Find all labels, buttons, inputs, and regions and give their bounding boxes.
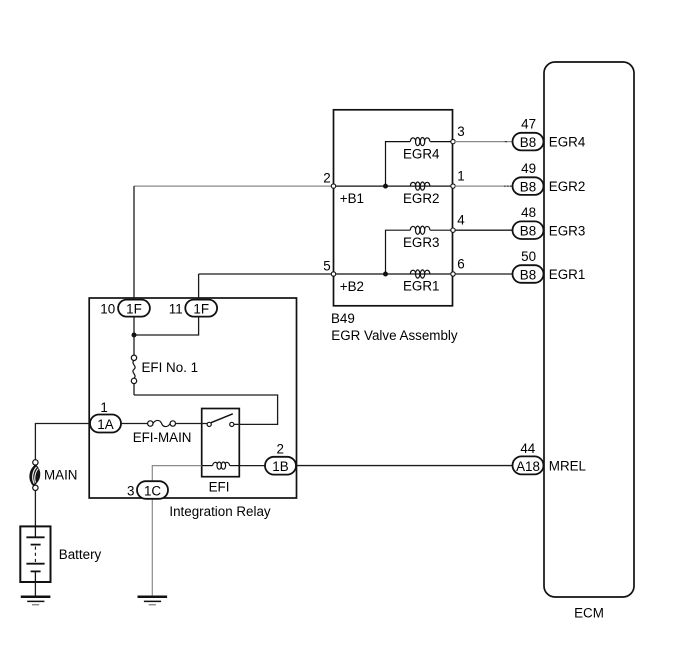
wire EGR1 to B8 — [455, 273, 514, 275]
wire stripe ticks on EGR4 wire — [505, 141, 507, 143]
wire +B2 feed horizontal — [199, 273, 334, 275]
wire branch to EGR3 — [386, 230, 411, 274]
ground (1C) — [138, 597, 168, 605]
connector A18 pin44 MREL — [513, 441, 587, 474]
svg-text:6: 6 — [457, 257, 464, 272]
svg-text:ECM: ECM — [574, 606, 604, 621]
wire 1F11 vertical — [134, 274, 199, 335]
wire battery to 1A — [35, 424, 90, 460]
wire EGR3 to B8 — [455, 229, 514, 231]
svg-text:B49: B49 — [331, 311, 355, 326]
svg-text:Integration Relay: Integration Relay — [169, 504, 271, 519]
svg-text:MREL: MREL — [549, 459, 586, 474]
EGR valve assembly box B49 — [331, 110, 458, 343]
wire 1B to A18 (MREL) — [294, 465, 514, 467]
wire +B1 feed horizontal (gray) — [134, 185, 334, 187]
node +B2 junction — [383, 272, 388, 277]
svg-text:EGR1: EGR1 — [549, 267, 585, 282]
connector 1F pin11 — [169, 300, 217, 317]
svg-text:EGR Valve Assembly: EGR Valve Assembly — [331, 328, 458, 343]
wire EGR3 row — [430, 229, 453, 231]
connector 1A pin1 — [90, 400, 121, 433]
wire battery to ground — [34, 582, 36, 596]
connector B8 pin47 EGR4 — [513, 117, 586, 151]
svg-text:EFI-MAIN: EFI-MAIN — [133, 430, 192, 445]
wire EGR4 row — [430, 141, 453, 143]
svg-text:EGR2: EGR2 — [403, 191, 439, 206]
fuse EFI-MAIN — [133, 420, 192, 444]
coil EGR4 — [403, 138, 440, 162]
svg-text:2: 2 — [323, 171, 330, 186]
wire MAIN to battery — [34, 491, 36, 527]
svg-text:50: 50 — [521, 249, 536, 264]
wire +B2 row inside — [334, 273, 454, 275]
Integration Relay box — [89, 298, 296, 519]
svg-text:B8: B8 — [520, 224, 536, 239]
wire 1F10 vertical — [133, 186, 135, 335]
wire 1A to EFI-MAIN fuse — [120, 423, 148, 425]
svg-text:MAIN: MAIN — [44, 468, 77, 483]
svg-text:48: 48 — [521, 205, 536, 220]
svg-text:1C: 1C — [144, 484, 161, 499]
svg-text:1F: 1F — [193, 302, 209, 317]
svg-text:3: 3 — [457, 124, 464, 139]
MAIN fusible link — [30, 460, 77, 491]
svg-text:47: 47 — [521, 117, 536, 132]
svg-text:5: 5 — [323, 259, 330, 274]
connector 1F pin10 — [100, 300, 150, 317]
ECM box — [544, 62, 634, 621]
battery — [20, 526, 101, 582]
svg-text:EFI No. 1: EFI No. 1 — [142, 360, 199, 375]
svg-text:1: 1 — [457, 169, 464, 184]
wire stripe ticks on EGR2 wire — [504, 185, 512, 187]
svg-text:Battery: Battery — [59, 547, 102, 562]
svg-text:+B2: +B2 — [340, 279, 364, 294]
wire dot to fuse EFI No.1 — [133, 335, 135, 355]
node +B1 junction — [383, 184, 388, 189]
svg-text:4: 4 — [457, 213, 465, 228]
svg-text:+B1: +B1 — [340, 191, 364, 206]
wire branch to EGR4 — [386, 142, 411, 187]
svg-text:49: 49 — [521, 161, 536, 176]
fuse EFI No. 1 — [131, 355, 198, 395]
svg-text:1: 1 — [100, 400, 107, 415]
connector B8 pin48 EGR3 — [513, 205, 586, 239]
coil EGR3 — [403, 226, 439, 250]
svg-text:44: 44 — [520, 441, 535, 456]
svg-text:EGR4: EGR4 — [549, 135, 586, 150]
svg-text:EGR2: EGR2 — [549, 179, 585, 194]
svg-text:3: 3 — [127, 484, 134, 499]
svg-text:B8: B8 — [520, 268, 536, 283]
EFI relay box — [202, 409, 240, 495]
svg-text:B8: B8 — [520, 180, 536, 195]
svg-text:2: 2 — [277, 442, 284, 457]
svg-text:1F: 1F — [126, 302, 142, 317]
ground (battery) — [21, 597, 51, 605]
svg-text:1A: 1A — [97, 417, 113, 432]
connector B8 pin50 EGR1 — [513, 249, 586, 283]
wire fuse to relay switch — [134, 395, 278, 424]
svg-text:A18: A18 — [516, 459, 540, 474]
wire EGR4 to B8 (gray) — [455, 141, 514, 143]
svg-text:1B: 1B — [272, 459, 288, 474]
junction dot at 1F bus — [132, 333, 137, 338]
wire fuse to switch — [176, 423, 208, 425]
svg-text:EFI: EFI — [209, 479, 230, 494]
connector 1C pin3 — [127, 481, 168, 499]
connector B8 pin49 EGR2 — [513, 161, 586, 195]
coil EGR2 — [403, 182, 439, 206]
wire EGR2 to B8 (gray) — [455, 185, 514, 187]
svg-text:11: 11 — [169, 302, 183, 317]
svg-text:10: 10 — [100, 302, 115, 317]
relay coil line left (gray) — [152, 466, 201, 596]
svg-text:EGR1: EGR1 — [403, 279, 439, 294]
coil EGR1 — [403, 270, 439, 294]
wire +B1 row inside — [334, 185, 454, 187]
wire coil to 1B — [239, 465, 268, 467]
relay switch contacts — [207, 414, 234, 427]
svg-text:EGR3: EGR3 — [549, 223, 585, 238]
relay coil EFI — [213, 462, 230, 469]
relay coil line inside — [202, 465, 213, 467]
svg-text:EGR4: EGR4 — [403, 146, 440, 161]
svg-text:EGR3: EGR3 — [403, 235, 439, 250]
connector 1B pin2 — [265, 442, 296, 475]
svg-text:B8: B8 — [520, 135, 536, 150]
